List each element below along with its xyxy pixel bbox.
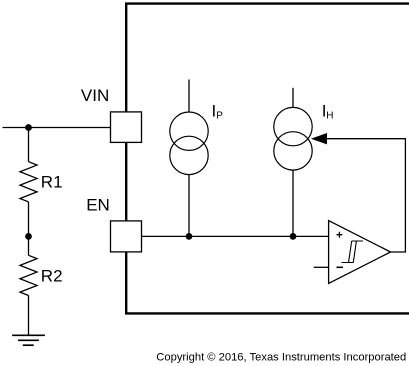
- resistor R2: [20, 255, 63, 295]
- current source IP: [170, 80, 224, 237]
- svg-text:H: H: [326, 110, 333, 121]
- wire R2 to ground: [28, 296, 30, 336]
- node IH-EN junction: [290, 233, 297, 240]
- wire EN node to R2: [28, 236, 30, 255]
- wire R1 to EN node: [28, 202, 30, 237]
- arrowhead into IH: [311, 133, 327, 144]
- wire divider column top (node to R1): [28, 128, 30, 162]
- ground: [12, 335, 45, 345]
- node IP-EN junction: [186, 233, 193, 240]
- current source IH: [274, 88, 334, 237]
- svg-text:Copyright © 2016, Texas Instru: Copyright © 2016, Texas Instruments Inco…: [156, 352, 406, 364]
- svg-text:R2: R2: [41, 266, 63, 285]
- svg-text:P: P: [216, 110, 223, 121]
- plus input mark: [337, 232, 343, 238]
- wire feedback output to IH: [320, 139, 405, 252]
- node VIN divider junction: [25, 124, 32, 131]
- hysteresis symbol: [342, 241, 364, 263]
- minus input mark: [337, 266, 344, 268]
- svg-text:R1: R1: [41, 172, 63, 191]
- node EN divider junction: [25, 233, 32, 240]
- wire VIN input lead: [3, 127, 111, 129]
- svg-text:VIN: VIN: [81, 86, 109, 105]
- op-amp U1 comparator: [329, 221, 391, 284]
- pin EN: [86, 195, 141, 252]
- wire comparator minus input stub: [314, 266, 329, 268]
- IC boundary: [126, 4, 409, 314]
- svg-text:EN: EN: [86, 195, 110, 214]
- resistor R1: [20, 162, 63, 202]
- wire EN rail: [142, 235, 329, 237]
- pin VIN: [81, 86, 142, 142]
